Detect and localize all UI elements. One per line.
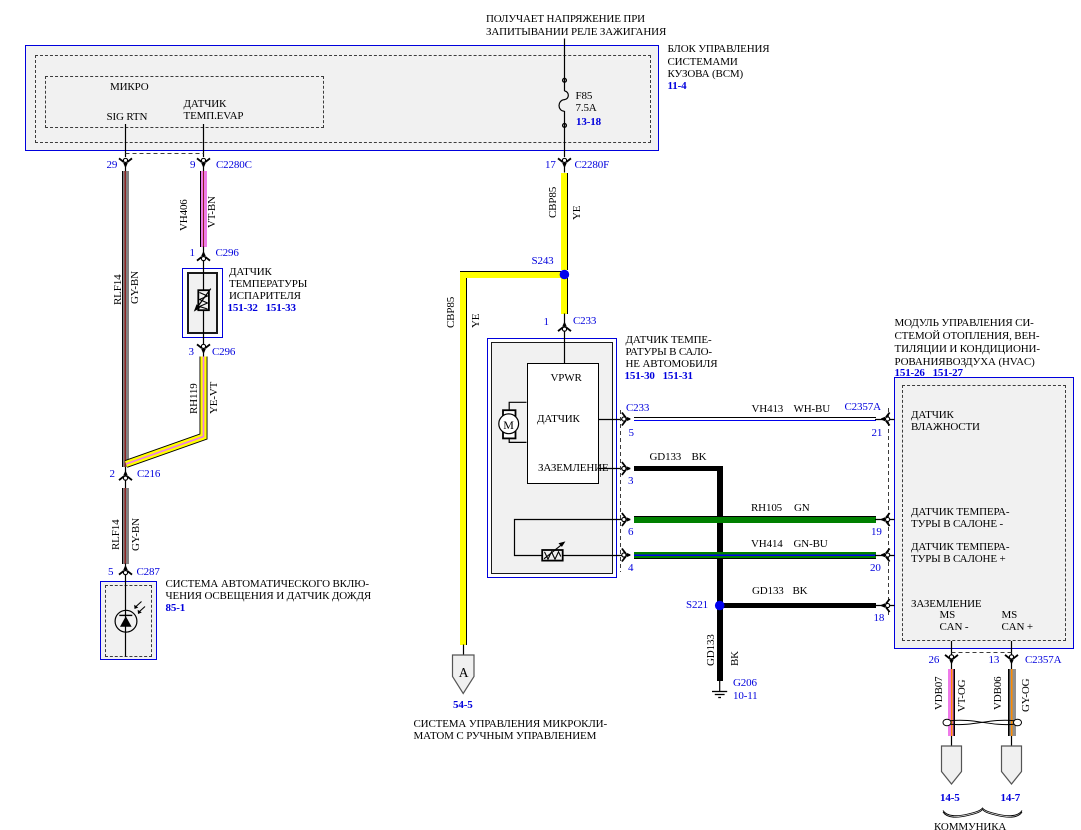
- svg-text:A: A: [459, 665, 469, 680]
- svg-text:M: M: [503, 418, 514, 432]
